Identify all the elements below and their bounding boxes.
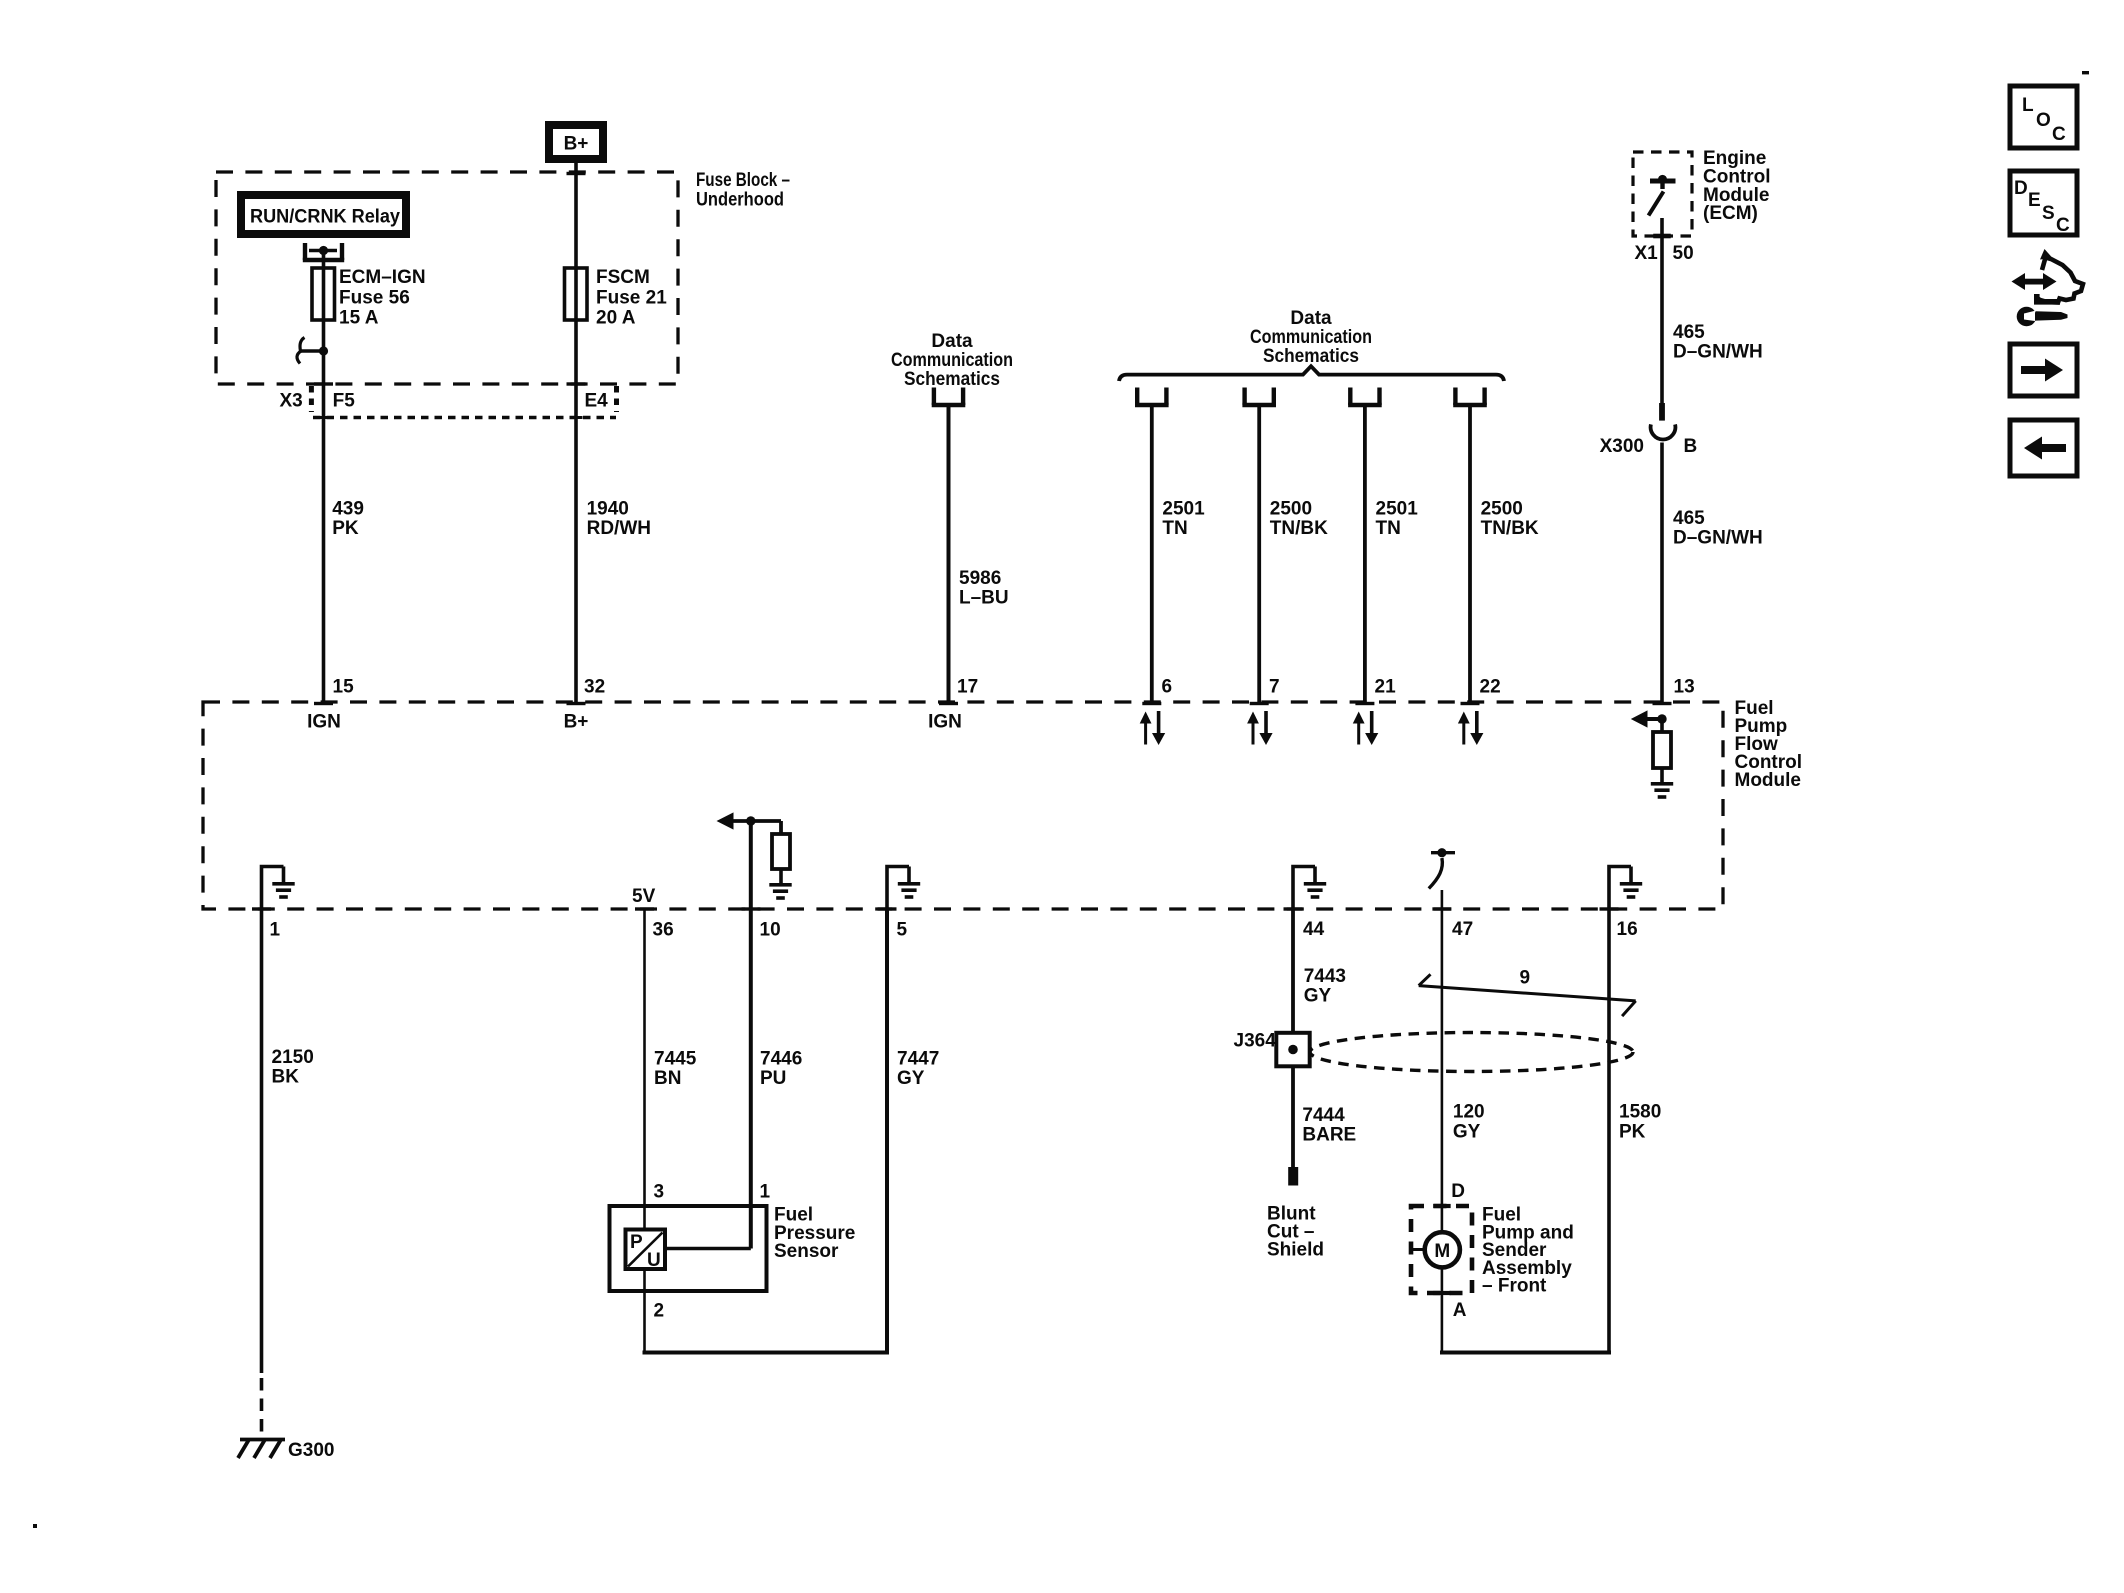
svg-text:D–GN/WH: D–GN/WH xyxy=(1673,528,1763,549)
pin 36 xyxy=(653,920,674,941)
Fuel Pump Flow Control Module dashed box xyxy=(203,702,1723,909)
svg-text:5V: 5V xyxy=(632,886,656,907)
svg-text:Fuse 56: Fuse 56 xyxy=(339,287,410,308)
svg-text:439: 439 xyxy=(332,499,364,520)
wire 465 D-GN/WH upper segment xyxy=(1659,218,1665,421)
fuse F21: FSCM Fuse 21 20 A xyxy=(565,268,588,320)
svg-text:X3: X3 xyxy=(280,391,303,412)
svg-text:1940: 1940 xyxy=(587,499,629,520)
wire label 2501 TN xyxy=(1376,499,1419,540)
svg-text:A: A xyxy=(1453,1300,1467,1321)
svg-text:15: 15 xyxy=(333,677,355,698)
svg-text:ECM–IGN: ECM–IGN xyxy=(339,267,426,288)
svg-text:Data: Data xyxy=(931,331,973,352)
wire 7444 BARE xyxy=(1291,1066,1295,1167)
svg-text:13: 13 xyxy=(1674,677,1695,698)
svg-text:S: S xyxy=(2042,203,2055,224)
switch contact on wire 439 xyxy=(297,338,328,364)
wire B+ to FSCM fuse to pin 32 (1940 RD/WH) xyxy=(567,163,586,705)
svg-text:TN: TN xyxy=(1162,518,1187,539)
wire label 2500 TN/BK xyxy=(1270,499,1328,540)
icon box back arrow xyxy=(2010,420,2077,476)
ground G300 xyxy=(238,1440,285,1459)
svg-text:TN/BK: TN/BK xyxy=(1481,518,1539,539)
svg-text:M: M xyxy=(1434,1241,1450,1262)
svg-text:C: C xyxy=(2052,124,2066,145)
svg-text:1: 1 xyxy=(760,1182,771,1203)
svg-text:Module: Module xyxy=(1735,770,1802,791)
svg-text:C: C xyxy=(2056,215,2070,236)
svg-text:7444: 7444 xyxy=(1302,1105,1345,1126)
wire label 2150 BK xyxy=(272,1047,314,1088)
svg-text:17: 17 xyxy=(957,677,978,698)
wire 439 PK: relay through fuse 56 and switch to pin 15 xyxy=(314,252,333,705)
wire label 439 PK xyxy=(332,499,364,540)
pin 2 (sensor) xyxy=(654,1301,665,1322)
ground (pin 44 internal) xyxy=(1293,867,1326,910)
wire label 2500 TN/BK xyxy=(1481,499,1539,540)
svg-text:BK: BK xyxy=(272,1067,300,1088)
svg-text:2501: 2501 xyxy=(1376,499,1419,520)
svg-text:L–BU: L–BU xyxy=(959,588,1009,609)
pin 10 xyxy=(760,920,781,941)
svg-text:3: 3 xyxy=(654,1182,665,1203)
svg-text:GY: GY xyxy=(1304,986,1332,1007)
wire label 2501 TN xyxy=(1162,499,1205,540)
wire label 1580 PK xyxy=(1619,1102,1661,1143)
wire 1580 PK (pin 16) xyxy=(1607,909,1611,1353)
svg-text:50: 50 xyxy=(1673,243,1694,264)
svg-text:Fuse 21: Fuse 21 xyxy=(596,287,667,308)
ECM pin 50 tick xyxy=(1653,234,1671,239)
module bottom pin ticks xyxy=(252,907,1619,910)
label Fuel Pressure Sensor xyxy=(774,1205,855,1263)
svg-text:B+: B+ xyxy=(564,711,589,732)
svg-text:Underhood: Underhood xyxy=(696,190,784,211)
svg-text:1: 1 xyxy=(270,920,281,941)
pin 3 (sensor) xyxy=(654,1182,665,1203)
wire label 7444 BARE xyxy=(1302,1105,1356,1146)
svg-text:15 A: 15 A xyxy=(339,308,379,329)
net IGN (pin 17) xyxy=(928,711,962,732)
pin label X3 xyxy=(280,391,303,412)
wire 120 GY (pin 47) xyxy=(1433,909,1451,1233)
relay output terminal connector xyxy=(303,243,344,260)
svg-text:Schematics: Schematics xyxy=(904,369,1000,390)
wire 2500 TN/BK to pin 22 xyxy=(1461,405,1480,705)
svg-text:2150: 2150 xyxy=(272,1047,314,1068)
wire 7446 PU (pin 10) xyxy=(749,821,753,1249)
pin 32 xyxy=(584,677,605,698)
wire pin2 to pin5 return link xyxy=(643,1269,890,1353)
label Engine Control Module (ECM) xyxy=(1703,148,1771,224)
svg-text:BN: BN xyxy=(654,1068,681,1089)
svg-text:D: D xyxy=(2014,178,2028,199)
pin 7 xyxy=(1269,677,1280,698)
icon box LOC xyxy=(2010,86,2077,148)
pin 13 xyxy=(1674,677,1695,698)
svg-text:D–GN/WH: D–GN/WH xyxy=(1673,342,1763,363)
wire 2500 TN/BK to pin 7 xyxy=(1250,405,1269,705)
svg-text:PU: PU xyxy=(760,1068,786,1089)
connector to data communication schematics (bus 22) xyxy=(1453,388,1487,406)
wire label 7447 GY xyxy=(897,1049,939,1090)
svg-text:6: 6 xyxy=(1162,677,1173,698)
svg-text:(ECM): (ECM) xyxy=(1703,203,1758,224)
label G300 xyxy=(288,1440,334,1461)
svg-text:PK: PK xyxy=(1619,1121,1646,1142)
svg-text:GY: GY xyxy=(897,1068,925,1089)
serial data arrows pin 22 xyxy=(1458,711,1484,745)
svg-text:16: 16 xyxy=(1617,919,1638,940)
pin 44 xyxy=(1303,919,1325,940)
svg-text:2500: 2500 xyxy=(1481,499,1523,520)
pin 21 xyxy=(1375,677,1397,698)
splice J364 xyxy=(1276,1033,1309,1067)
svg-text:7: 7 xyxy=(1269,677,1280,698)
svg-text:GY: GY xyxy=(1453,1121,1481,1142)
svg-text:7446: 7446 xyxy=(760,1049,802,1070)
label J364 xyxy=(1234,1031,1277,1052)
ground (5V pull-up) xyxy=(769,883,791,900)
svg-text:7443: 7443 xyxy=(1304,966,1346,987)
svg-text:2: 2 xyxy=(654,1301,665,1322)
wire 2501 TN to pin 6 xyxy=(1142,405,1161,705)
wire label 120 GY xyxy=(1453,1102,1485,1143)
connector to data communication schematics (bus 7) xyxy=(1242,388,1276,406)
svg-text:Communication: Communication xyxy=(891,350,1013,371)
label B xyxy=(1684,436,1698,457)
wire label 465 D-GN/WH (upper) xyxy=(1673,322,1763,363)
svg-text:IGN: IGN xyxy=(307,711,341,732)
svg-text:B+: B+ xyxy=(564,134,589,155)
ground (pin 16 internal) xyxy=(1609,867,1642,910)
svg-text:20 A: 20 A xyxy=(596,308,636,329)
svg-text:L: L xyxy=(2022,95,2034,116)
shield ellipse xyxy=(1310,1033,1633,1072)
svg-text:465: 465 xyxy=(1673,508,1705,529)
wire label 465 D-GN/WH (lower) xyxy=(1673,508,1763,549)
wire pump return to pin 16 link xyxy=(1433,1267,1611,1352)
svg-text:5986: 5986 xyxy=(959,568,1001,589)
serial data arrows pin 6 xyxy=(1140,711,1166,745)
label Fuel Pump Flow Control Module xyxy=(1735,698,1803,791)
switch contact above pin 47 xyxy=(1429,848,1455,909)
wire 7447 GY (pin 5) xyxy=(885,909,889,1353)
pin label E4 xyxy=(585,391,609,412)
svg-text:Sensor: Sensor xyxy=(774,1241,839,1262)
net IGN (pin 15) xyxy=(307,711,341,732)
svg-text:E: E xyxy=(2028,190,2041,211)
connector X3 row (F5 / E4) xyxy=(311,386,616,418)
svg-text:RUN/CRNK Relay: RUN/CRNK Relay xyxy=(250,207,400,228)
blunt cut end xyxy=(1288,1167,1298,1186)
pin 6 xyxy=(1162,677,1173,698)
fuel pressure sensor box xyxy=(610,1206,767,1291)
wire 2150 BK xyxy=(260,909,264,1434)
callout 9 leader line xyxy=(1419,974,1636,1016)
svg-text:32: 32 xyxy=(584,677,605,698)
svg-text:36: 36 xyxy=(653,920,674,941)
resistor R (pin 13 pull) xyxy=(1653,719,1671,782)
pin 22 xyxy=(1480,677,1501,698)
svg-text:F5: F5 xyxy=(333,391,356,412)
svg-text:44: 44 xyxy=(1303,919,1325,940)
net 5V xyxy=(632,886,656,907)
svg-text:1580: 1580 xyxy=(1619,1102,1661,1123)
ground (pin 1 internal) xyxy=(262,867,295,910)
ground (pin 5 internal) xyxy=(887,867,920,910)
wire label 7445 BN xyxy=(654,1049,697,1090)
wire 7445 BN (pin 36) xyxy=(643,909,646,1230)
svg-text:U: U xyxy=(647,1250,661,1271)
svg-text:Fuse Block –: Fuse Block – xyxy=(696,170,790,191)
svg-text:Shield: Shield xyxy=(1267,1240,1324,1261)
svg-text:47: 47 xyxy=(1452,919,1473,940)
svg-text:120: 120 xyxy=(1453,1102,1485,1123)
svg-text:TN: TN xyxy=(1376,518,1401,539)
svg-text:G300: G300 xyxy=(288,1440,334,1461)
wire label 1940 RD/WH xyxy=(587,499,651,540)
pin D (pump) xyxy=(1451,1181,1465,1202)
label Data Communication Schematics (right) xyxy=(1250,308,1372,367)
svg-text:E4: E4 xyxy=(585,391,609,412)
svg-text:7447: 7447 xyxy=(897,1049,939,1070)
wire 5986 L-BU to pin 17 xyxy=(939,405,958,705)
serial data arrows pin 7 xyxy=(1247,711,1273,745)
pin 1 (sensor) xyxy=(760,1182,771,1203)
wire label 7443 GY xyxy=(1304,966,1346,1007)
svg-text:2501: 2501 xyxy=(1162,499,1205,520)
svg-text:TN/BK: TN/BK xyxy=(1270,518,1328,539)
sensor internal link pin1 to P/U xyxy=(665,1247,751,1251)
label Data Communication Schematics (left) xyxy=(891,331,1013,390)
connector to data communication schematics (left) xyxy=(932,388,966,406)
stray mark bottom left xyxy=(33,1524,37,1528)
fuse F56: ECM-IGN Fuse 56 15 A xyxy=(312,268,335,320)
brace over data bus connectors xyxy=(1119,366,1504,381)
svg-text:J364: J364 xyxy=(1234,1031,1277,1052)
svg-text:7445: 7445 xyxy=(654,1049,697,1070)
pin 16 xyxy=(1617,919,1638,940)
icon box forward arrow xyxy=(2010,344,2077,396)
connector to data communication schematics (bus 6) xyxy=(1135,388,1169,406)
ECM internal switch symbol xyxy=(1649,175,1676,216)
label X300 xyxy=(1600,436,1644,457)
relay K: RUN/CRNK Relay box xyxy=(237,191,410,238)
svg-text:21: 21 xyxy=(1375,677,1397,698)
svg-text:FSCM: FSCM xyxy=(596,267,650,288)
svg-text:22: 22 xyxy=(1480,677,1501,698)
inline connector X300 terminal B xyxy=(1651,424,1676,439)
P/U transducer symbol xyxy=(626,1230,666,1272)
svg-text:B: B xyxy=(1684,436,1698,457)
svg-text:Communication: Communication xyxy=(1250,327,1372,348)
svg-text:BARE: BARE xyxy=(1302,1125,1356,1146)
icon box DESC xyxy=(2010,171,2077,236)
net B+ (pin 32) xyxy=(564,711,589,732)
svg-text:465: 465 xyxy=(1673,322,1705,343)
fuel pump assembly dashed box xyxy=(1411,1206,1472,1293)
wire 465 D-GN/WH lower segment to pin 13 xyxy=(1653,443,1672,706)
serial data arrows pin 21 xyxy=(1353,711,1379,745)
pin label X1 xyxy=(1635,243,1659,264)
svg-text:9: 9 xyxy=(1520,968,1531,989)
pin 13 internal signal arrow xyxy=(1631,710,1667,727)
label Fuel Pump and Sender Assembly - Front xyxy=(1482,1205,1574,1297)
label Blunt Cut - Shield xyxy=(1267,1204,1324,1261)
stray mark top right xyxy=(2082,71,2089,74)
label Fuse Block - Underhood xyxy=(696,170,790,211)
svg-text:X1: X1 xyxy=(1635,243,1659,264)
pin 17 xyxy=(957,677,978,698)
svg-text:IGN: IGN xyxy=(928,711,962,732)
pin 1 xyxy=(270,920,281,941)
pin 47 xyxy=(1452,919,1473,940)
pin 5 xyxy=(897,920,908,941)
svg-text:Data: Data xyxy=(1290,308,1332,329)
svg-text:2500: 2500 xyxy=(1270,499,1312,520)
node B+ power symbol xyxy=(545,121,607,163)
wire 2501 TN to pin 21 xyxy=(1355,405,1374,705)
5V reference arrow and junction xyxy=(717,812,782,829)
icon wrench with arrows xyxy=(2012,249,2084,326)
pin A (pump) xyxy=(1453,1300,1467,1321)
svg-text:O: O xyxy=(2036,110,2051,131)
svg-text:5: 5 xyxy=(897,920,908,941)
svg-text:X300: X300 xyxy=(1600,436,1644,457)
fuse block - underhood dashed box xyxy=(216,172,678,384)
ECM dashed box xyxy=(1633,152,1692,236)
pin 15 xyxy=(333,677,355,698)
pin label 50 xyxy=(1673,243,1694,264)
wire label 5986 L-BU xyxy=(959,568,1009,609)
svg-text:RD/WH: RD/WH xyxy=(587,518,651,539)
svg-text:P: P xyxy=(630,1232,643,1253)
label ECM-IGN Fuse 56 15 A xyxy=(339,267,426,329)
wire label 7446 PU xyxy=(760,1049,802,1090)
svg-text:– Front: – Front xyxy=(1482,1276,1547,1297)
svg-text:10: 10 xyxy=(760,920,781,941)
connector to data communication schematics (bus 21) xyxy=(1348,388,1382,406)
label FSCM Fuse 21 20 A xyxy=(596,267,667,329)
label 9 xyxy=(1520,968,1531,989)
pin label F5 xyxy=(333,391,356,412)
motor M symbol xyxy=(1411,1232,1460,1267)
ground (pin 13 internal) xyxy=(1651,782,1673,799)
wire 7443 GY (pin 44) xyxy=(1291,909,1295,1033)
resistor R (5V pull-up) xyxy=(772,821,790,883)
svg-text:PK: PK xyxy=(332,518,359,539)
svg-text:D: D xyxy=(1451,1181,1465,1202)
